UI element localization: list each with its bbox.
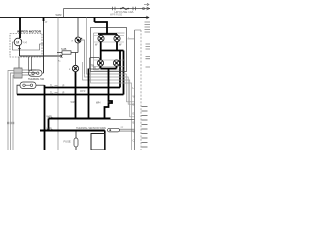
bold bar y87.5 xyxy=(45,87,121,89)
bold riser x120 xyxy=(119,51,121,88)
node dot on fuse line xyxy=(143,8,145,10)
wire above MT xyxy=(77,18,79,38)
svg-text:(+): (+) xyxy=(24,40,27,44)
lamp circle TL xyxy=(98,35,104,41)
relay assembly outer box xyxy=(91,28,127,72)
plate rails bottom row xyxy=(94,60,124,67)
svg-text:TB: TB xyxy=(91,64,95,68)
svg-text:W: W xyxy=(133,95,136,99)
bottom right comb xyxy=(142,107,148,148)
parking contact symbol xyxy=(61,55,63,58)
right edge tick comb top xyxy=(145,22,151,32)
svg-text:THERMAL SENSOR-WIRE: THERMAL SENSOR-WIRE xyxy=(76,126,106,130)
TB box xyxy=(90,58,100,70)
bold bar above top circles xyxy=(98,33,117,35)
motor M1 circle xyxy=(14,38,22,46)
connector pair right on fuse line xyxy=(133,7,136,10)
right edge tick comb mid1 xyxy=(146,44,151,49)
motor internal wire loop xyxy=(13,42,44,50)
wire gray vertical x58 xyxy=(57,18,59,151)
motor bottom lead with tick xyxy=(19,46,21,56)
arrow bus right end xyxy=(146,16,149,19)
bold bar y130.5 xyxy=(40,130,105,132)
wire bold drop to wiper motor xyxy=(19,18,21,39)
gray wrap wire w1 xyxy=(87,18,135,102)
wire dark vertical x43.5 xyxy=(43,18,45,74)
thin wire continuation of bar y118.5 xyxy=(111,119,135,121)
wire fuse feed horizontal xyxy=(64,8,151,10)
sensor double wire to connector xyxy=(120,129,135,131)
bold column TL to BL xyxy=(100,42,102,60)
bold feed drop x94.5 xyxy=(94,18,96,23)
gray wrap wire w3 xyxy=(83,62,135,117)
bold feed path xyxy=(95,22,108,34)
bold jog vertical x108.5 with connector steps xyxy=(105,95,113,119)
svg-text:WH: WH xyxy=(96,101,100,105)
wires block to left descending xyxy=(8,71,14,151)
svg-text:4P: 4P xyxy=(45,22,48,24)
lamp circle MT xyxy=(75,37,81,43)
plate rails top row xyxy=(94,36,124,43)
wires block to right xyxy=(22,70,36,75)
svg-text:B: B xyxy=(133,121,135,125)
wire MT right lead wrap xyxy=(81,40,85,74)
svg-text:SUB: SUB xyxy=(61,47,67,51)
svg-text:WPR FUSE: WPR FUSE xyxy=(110,15,123,17)
wire motor box leads down xyxy=(18,57,20,68)
bold bar under circles + drop x108.5 xyxy=(101,66,117,94)
svg-text:WIPER MOTOR: WIPER MOTOR xyxy=(17,29,42,33)
wire junction to circle ML xyxy=(75,53,77,66)
small tick labels mid xyxy=(55,86,58,93)
wire oval2 left lead to bold bar xyxy=(17,85,20,94)
svg-text:(P: (P xyxy=(62,91,65,94)
svg-text:WR: WR xyxy=(71,101,75,104)
bold TR stub down xyxy=(116,42,118,51)
bold corner down right end xyxy=(104,131,106,151)
wire motor lead to parking contact xyxy=(20,55,62,57)
wire riser to fuse line xyxy=(63,9,65,18)
arrow right end fuse line xyxy=(147,7,150,10)
svg-text:HP FUSE 10A: HP FUSE 10A xyxy=(115,10,134,14)
relay inner box xyxy=(94,33,125,70)
thermal switch SW1 oval xyxy=(29,70,43,76)
thermal sensor capsule xyxy=(108,128,120,132)
wiper motor dashed box xyxy=(10,34,42,58)
washer motor box bottom xyxy=(91,134,105,151)
svg-text:THERMAL SW: THERMAL SW xyxy=(28,77,45,81)
bold left edge x88.5 xyxy=(88,69,90,119)
svg-text:WPR: WPR xyxy=(56,13,62,17)
arrow top-right corner xyxy=(144,3,149,5)
connector block CN1 hatched xyxy=(14,68,22,78)
bold bar y118.5 xyxy=(49,118,111,120)
right connector tall box xyxy=(134,30,136,150)
bold vertical x44.5 to bottom xyxy=(44,85,46,150)
bold main bar y94.5 xyxy=(17,94,124,96)
svg-text:M: M xyxy=(16,41,19,45)
resistor R1 xyxy=(57,52,78,54)
bold bar y50.5 xyxy=(101,50,124,52)
bold drop from ML xyxy=(75,72,77,119)
bold step x48.5 xyxy=(48,119,50,131)
gray wrap wire w2 xyxy=(81,40,135,104)
lamp circle TR xyxy=(114,35,120,41)
fuse capsule bottom xyxy=(75,132,77,139)
bold riser x123.5 to relay xyxy=(123,51,125,95)
lamp circle ML xyxy=(72,65,78,71)
washer switch SW2 oval xyxy=(20,82,36,89)
connector pair left on fuse line xyxy=(113,7,116,10)
lamp circle BL xyxy=(97,60,103,66)
right edge tick comb mid2 xyxy=(146,57,151,68)
wire y38.5 into box xyxy=(128,38,135,40)
dashed right edge xyxy=(140,30,142,150)
svg-text:W: W xyxy=(133,130,136,134)
svg-text:C: C xyxy=(133,139,135,143)
lamp circle BR xyxy=(113,60,119,66)
svg-text:WPR: WPR xyxy=(80,91,86,93)
wire color labels on left verticals xyxy=(7,122,9,124)
svg-text:FUSE: FUSE xyxy=(64,140,71,144)
gray wrap wire w4 xyxy=(91,72,132,151)
wire oval2 right lead to bold vertical xyxy=(36,84,45,86)
fuse F1 xyxy=(122,7,128,10)
svg-text:E: E xyxy=(133,112,135,116)
wire main bus xyxy=(0,17,149,19)
svg-text:(P: (P xyxy=(62,84,65,87)
svg-text:B: B xyxy=(133,103,135,107)
stubs bar to circle tops xyxy=(101,34,117,36)
